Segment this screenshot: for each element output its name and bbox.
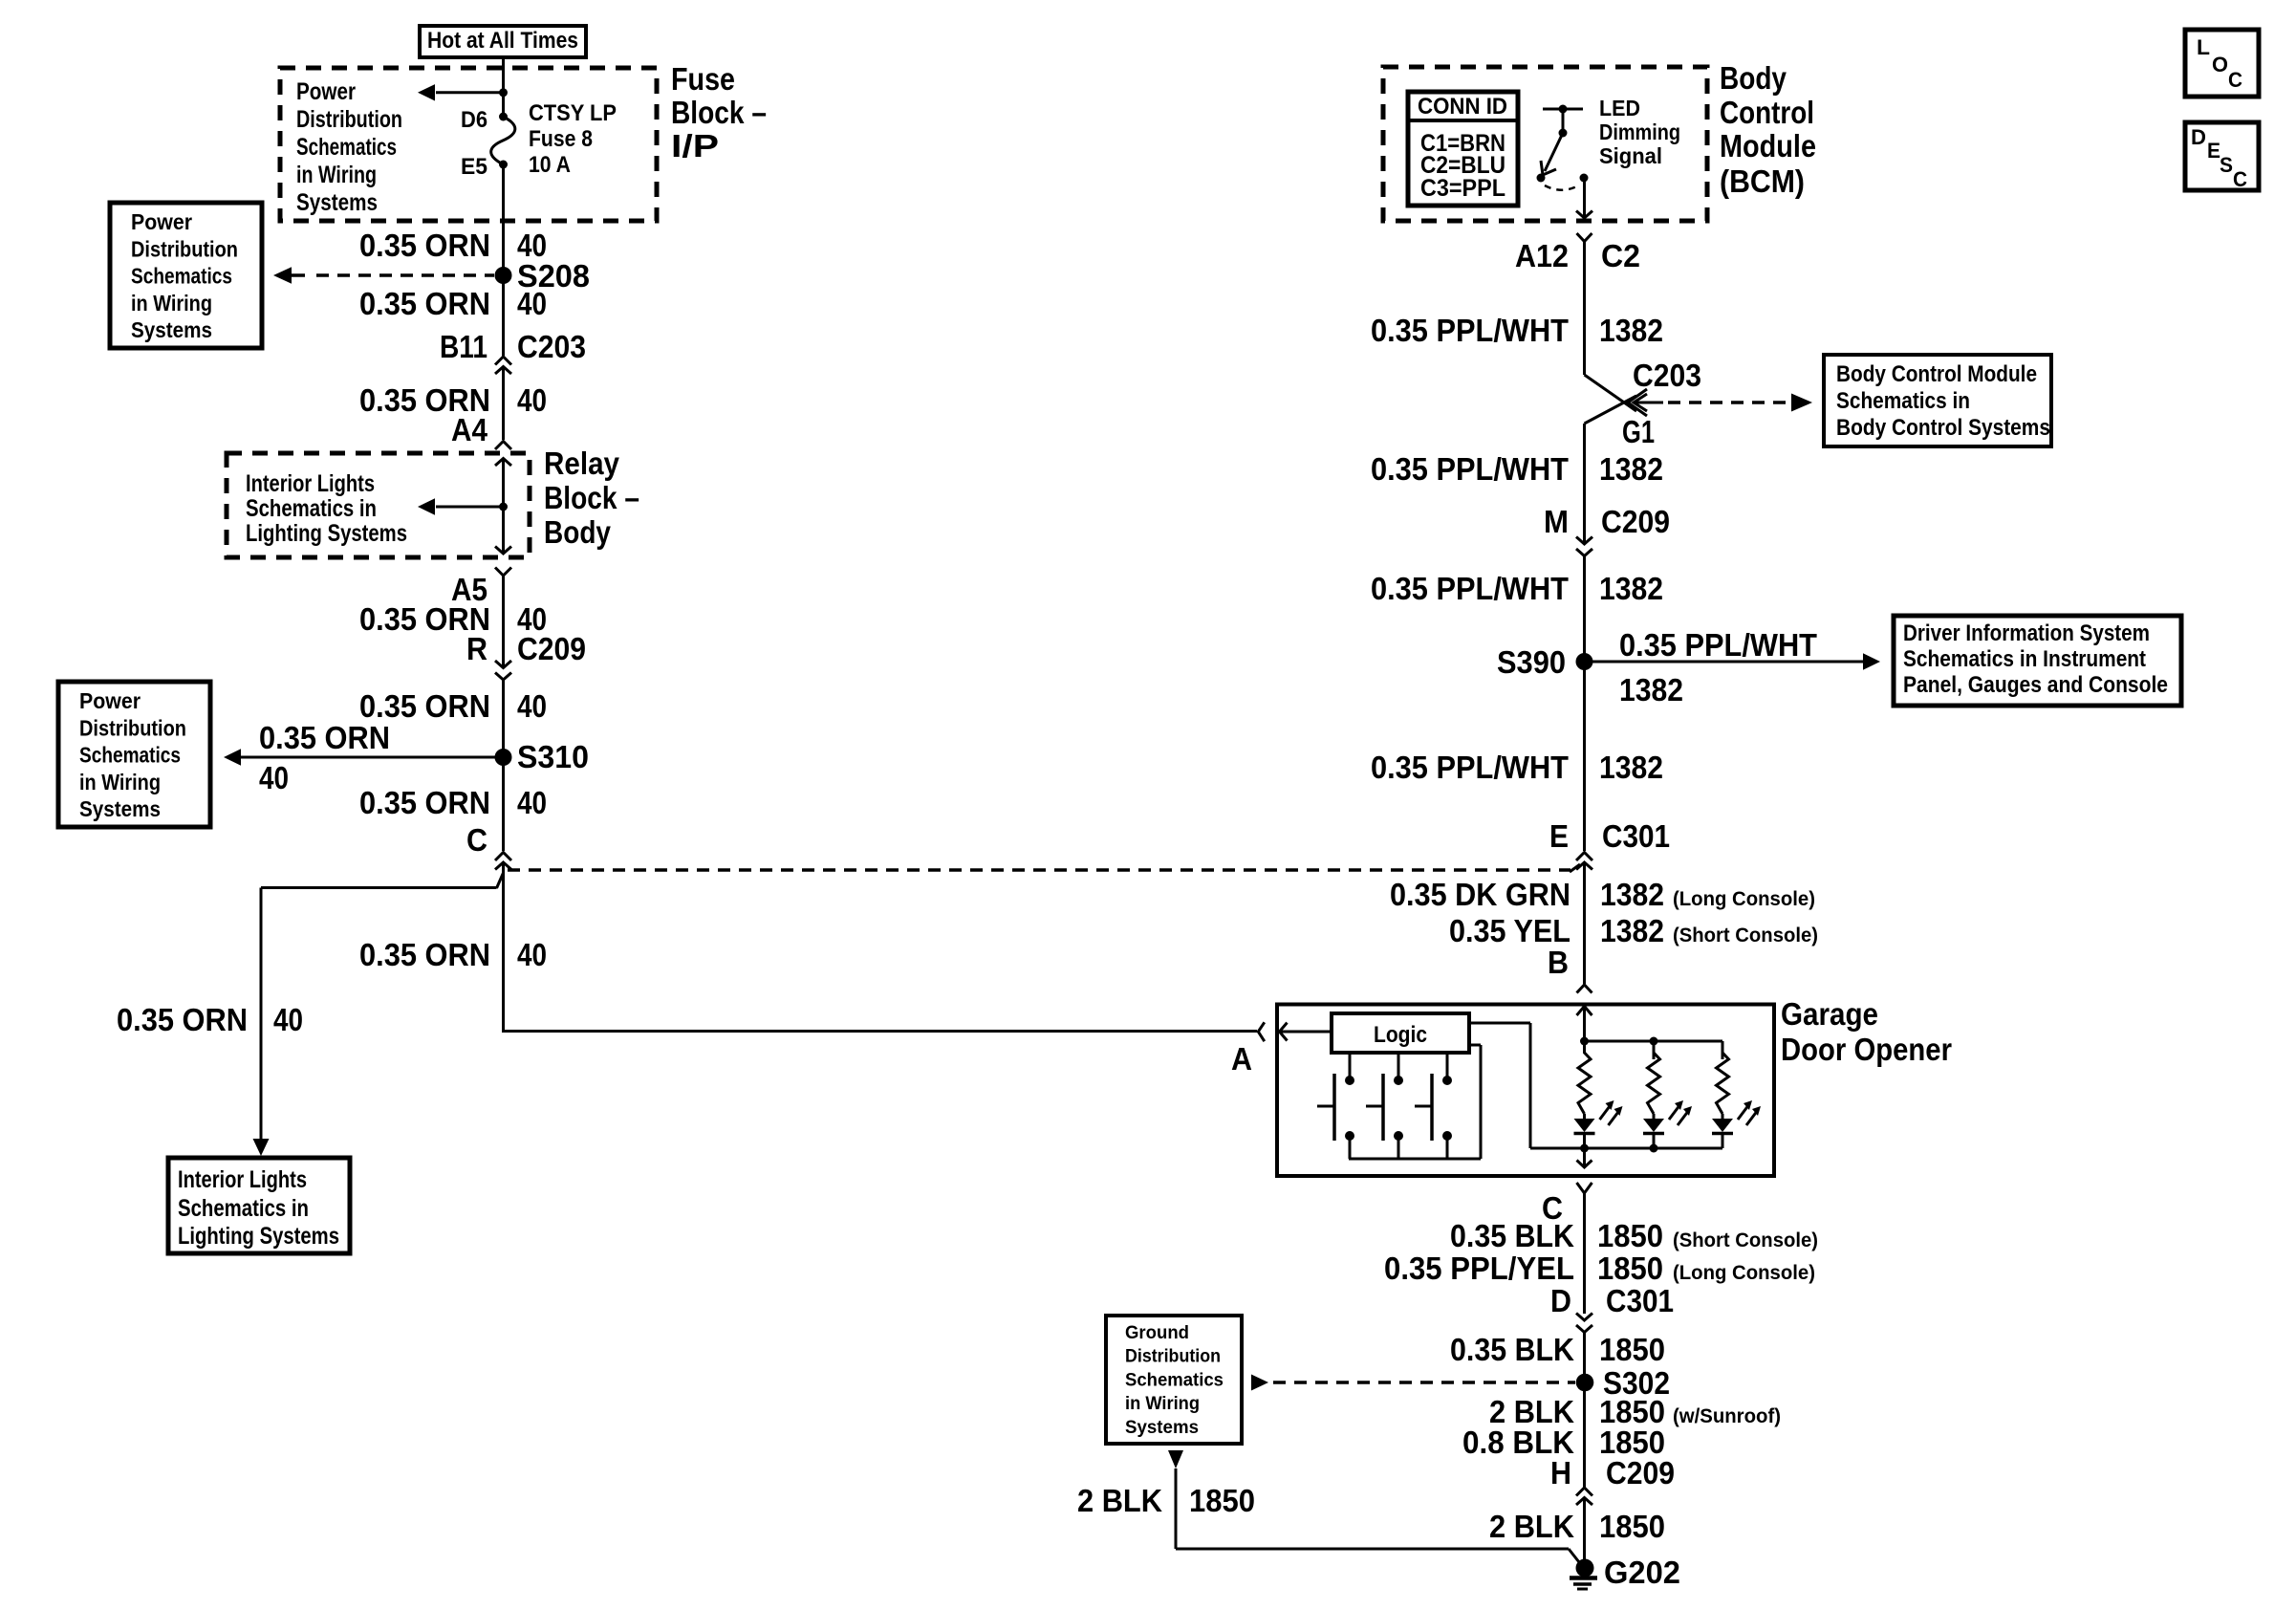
svg-text:1850: 1850 bbox=[1189, 1483, 1255, 1518]
arrow to interior lights schematics bbox=[499, 503, 508, 511]
svg-text:O: O bbox=[2212, 53, 2228, 76]
svg-text:40: 40 bbox=[259, 760, 289, 795]
arrowhead to Power Distribution Schematics bbox=[418, 84, 435, 100]
svg-text:Distribution: Distribution bbox=[131, 236, 238, 261]
connector pin B into garage door opener bbox=[1577, 985, 1592, 993]
svg-text:Hot at All Times: Hot at All Times bbox=[427, 28, 578, 54]
svg-text:1850: 1850 bbox=[1599, 1509, 1665, 1544]
svg-text:(BCM): (BCM) bbox=[1720, 163, 1805, 199]
svg-text:Interior Lights: Interior Lights bbox=[178, 1166, 307, 1193]
solid box: Power Distribution Schematics in Wiring Systems (lower left) bbox=[58, 682, 210, 827]
wire C301 to garage door opener bbox=[1583, 862, 1586, 984]
svg-text:Block –: Block – bbox=[671, 95, 767, 130]
svg-text:Block –: Block – bbox=[544, 480, 639, 515]
svg-text:Fuse: Fuse bbox=[671, 61, 735, 97]
wire H to G202 bbox=[1583, 1498, 1586, 1568]
connector C2 pin A12 below BCM bbox=[1577, 233, 1592, 242]
garage door opener box bbox=[1277, 1005, 1774, 1177]
svg-text:L: L bbox=[2197, 35, 2210, 59]
svg-text:D: D bbox=[2191, 125, 2206, 149]
horizontal wire to garage door opener pin A bbox=[502, 1030, 1257, 1033]
switch lever with arrowhead bbox=[1545, 133, 1563, 171]
BCM dashed box (Body Control Module) bbox=[1383, 67, 1707, 221]
svg-text:40: 40 bbox=[517, 785, 547, 820]
svg-text:LED: LED bbox=[1599, 96, 1640, 120]
svg-text:1382: 1382 bbox=[1599, 313, 1663, 348]
LED indicator arrows D1 bbox=[1600, 1104, 1612, 1120]
svg-text:Panel, Gauges and Console: Panel, Gauges and Console bbox=[1903, 672, 2168, 698]
svg-text:CONN ID: CONN ID bbox=[1418, 94, 1507, 120]
svg-text:Module: Module bbox=[1720, 128, 1816, 163]
LED D1 bbox=[1574, 1119, 1595, 1132]
svg-text:0.35 PPL/WHT: 0.35 PPL/WHT bbox=[1371, 451, 1569, 487]
svg-text:1850: 1850 bbox=[1597, 1251, 1663, 1286]
branch wire to interior lights bbox=[497, 873, 504, 888]
svg-text:40: 40 bbox=[517, 937, 547, 972]
svg-text:Schematics in: Schematics in bbox=[178, 1195, 309, 1222]
BCM internal switch (LED dimming signal driver) bbox=[1543, 108, 1583, 111]
svg-text:Body Control Systems: Body Control Systems bbox=[1836, 415, 2050, 441]
svg-text:Logic: Logic bbox=[1374, 1022, 1427, 1048]
wire A12 to C203 bbox=[1583, 242, 1586, 376]
svg-text:C2: C2 bbox=[1601, 238, 1640, 273]
wire E5 to S208 bbox=[502, 164, 505, 275]
svg-text:Garage: Garage bbox=[1781, 996, 1878, 1032]
solid box: Driver Information System Schematics bbox=[1894, 616, 2181, 706]
svg-text:(Long Console): (Long Console) bbox=[1673, 888, 1815, 910]
svg-text:0.35 DK GRN: 0.35 DK GRN bbox=[1390, 877, 1570, 912]
svg-text:E5: E5 bbox=[461, 154, 487, 180]
svg-text:0.35 ORN: 0.35 ORN bbox=[117, 1002, 248, 1037]
pushbutton switch SW2 bbox=[1397, 1053, 1400, 1077]
svg-text:(Short Console): (Short Console) bbox=[1673, 1229, 1818, 1251]
LED resistor R2 bbox=[1648, 1041, 1660, 1114]
pin C arrow exit bbox=[1583, 1148, 1586, 1167]
svg-text:0.35 ORN: 0.35 ORN bbox=[259, 720, 390, 755]
wire C to C301 bbox=[1583, 1193, 1586, 1314]
dashed arrow from S208 to Power Distribution box bbox=[292, 273, 305, 277]
switch contact right bbox=[1580, 174, 1589, 183]
svg-text:1382: 1382 bbox=[1600, 913, 1664, 948]
svg-text:S: S bbox=[2220, 153, 2233, 177]
svg-text:I/P: I/P bbox=[671, 128, 719, 163]
resistor column tops bbox=[1722, 1041, 1724, 1059]
wire C203 to C209 bbox=[1583, 424, 1586, 543]
svg-text:D6: D6 bbox=[461, 107, 487, 133]
ground G202 bbox=[1576, 1559, 1594, 1577]
svg-text:C: C bbox=[2228, 68, 2242, 92]
svg-text:Body Control Module: Body Control Module bbox=[1836, 361, 2037, 387]
svg-text:Interior Lights: Interior Lights bbox=[246, 470, 375, 497]
wire C209 to S390 bbox=[1583, 556, 1586, 663]
svg-text:Distribution: Distribution bbox=[296, 106, 402, 133]
svg-text:A4: A4 bbox=[451, 412, 488, 447]
DESC legend box bbox=[2185, 122, 2259, 190]
svg-text:40: 40 bbox=[517, 688, 547, 724]
svg-text:Control: Control bbox=[1720, 95, 1814, 130]
dashed arrow from S302 to Ground Distribution box bbox=[1273, 1381, 1575, 1384]
splice S208 bbox=[495, 267, 512, 284]
svg-text:Schematics: Schematics bbox=[296, 134, 397, 161]
svg-text:0.35 ORN: 0.35 ORN bbox=[359, 228, 490, 263]
svg-text:B: B bbox=[1548, 945, 1569, 980]
svg-text:in Wiring: in Wiring bbox=[1125, 1394, 1200, 1414]
fuse CTSY LP Fuse 8 10A (fuse element curve) bbox=[491, 117, 515, 164]
svg-text:Dimming: Dimming bbox=[1599, 120, 1680, 144]
svg-text:A: A bbox=[1231, 1041, 1252, 1077]
svg-text:0.35 BLK: 0.35 BLK bbox=[1450, 1332, 1574, 1367]
svg-text:0.35 PPL/WHT: 0.35 PPL/WHT bbox=[1371, 313, 1569, 348]
svg-text:in Wiring: in Wiring bbox=[296, 162, 377, 188]
svg-text:1850: 1850 bbox=[1597, 1218, 1663, 1253]
pin A connector chevron bbox=[1258, 1022, 1265, 1041]
svg-text:Power: Power bbox=[296, 78, 356, 105]
power label box "Hot at All Times" bbox=[420, 26, 586, 57]
svg-text:E: E bbox=[1549, 818, 1569, 854]
solid box: Power Distribution Schematics in Wiring Systems (left) bbox=[110, 203, 262, 348]
svg-text:C301: C301 bbox=[1602, 818, 1670, 854]
wire C301 to S302 bbox=[1583, 1333, 1586, 1489]
svg-text:D: D bbox=[1550, 1283, 1571, 1318]
svg-text:1382: 1382 bbox=[1599, 451, 1663, 487]
svg-text:B11: B11 bbox=[440, 329, 487, 364]
wire S208 to C203 connector bbox=[502, 275, 505, 356]
svg-text:Schematics: Schematics bbox=[1125, 1370, 1224, 1390]
svg-text:E: E bbox=[2207, 139, 2220, 163]
svg-text:Systems: Systems bbox=[1125, 1418, 1199, 1438]
pushbutton switch SW3 bbox=[1446, 1053, 1449, 1077]
wire C209 to S310 bbox=[502, 680, 505, 851]
svg-text:1382: 1382 bbox=[1599, 750, 1663, 785]
svg-text:Schematics in: Schematics in bbox=[246, 495, 377, 522]
wire C to garage door opener bbox=[502, 862, 505, 1030]
dashed throw arc bbox=[1545, 185, 1580, 190]
pin B arrow inside box bbox=[1577, 1007, 1592, 1016]
svg-text:(Short Console): (Short Console) bbox=[1673, 925, 1818, 946]
svg-text:0.35 PPL/WHT: 0.35 PPL/WHT bbox=[1371, 750, 1569, 785]
solid box: Ground Distribution Schematics in Wiring Systems bbox=[1106, 1316, 1242, 1444]
svg-text:Distribution: Distribution bbox=[1125, 1347, 1221, 1367]
top rail of LED resistors bbox=[1580, 1037, 1589, 1046]
connector A5 exit of relay block bbox=[495, 547, 511, 555]
LED D2 bbox=[1643, 1119, 1664, 1132]
wire from Hot at All Times into fuse block bbox=[502, 57, 505, 117]
svg-text:C3=PPL: C3=PPL bbox=[1420, 175, 1505, 202]
svg-text:C: C bbox=[2233, 167, 2247, 191]
svg-text:Fuse 8: Fuse 8 bbox=[529, 126, 593, 152]
svg-text:R: R bbox=[466, 631, 487, 666]
arrow half of A4 connector inside relay block bbox=[495, 459, 511, 467]
fuse terminal E5 bbox=[499, 161, 508, 169]
svg-text:(w/Sunroof): (w/Sunroof) bbox=[1673, 1405, 1781, 1427]
arrow from S310 to Power Distribution box (left) bbox=[241, 756, 504, 759]
svg-text:Schematics: Schematics bbox=[131, 264, 232, 289]
solid box: Interior Lights Schematics in Lighting Systems bbox=[168, 1158, 350, 1253]
relay block dashed box (Relay Block - Body) bbox=[227, 453, 530, 557]
svg-text:C209: C209 bbox=[1606, 1455, 1675, 1490]
svg-text:G1: G1 bbox=[1622, 414, 1655, 449]
svg-text:Lighting Systems: Lighting Systems bbox=[246, 520, 407, 547]
LED indicator arrows D2 bbox=[1669, 1104, 1680, 1120]
svg-text:0.35 YEL: 0.35 YEL bbox=[1449, 913, 1570, 948]
svg-text:S310: S310 bbox=[517, 739, 589, 774]
svg-text:C301: C301 bbox=[1606, 1283, 1674, 1318]
dashed wire from C connector to E connector bbox=[508, 868, 1570, 872]
svg-text:Body: Body bbox=[544, 514, 612, 550]
wire down to relay block exit bbox=[502, 507, 505, 552]
wire S390 to C301 bbox=[1583, 662, 1586, 851]
svg-text:Relay: Relay bbox=[544, 446, 620, 481]
svg-text:S390: S390 bbox=[1497, 644, 1566, 680]
svg-text:40: 40 bbox=[273, 1002, 303, 1037]
svg-text:Door Opener: Door Opener bbox=[1781, 1032, 1952, 1067]
splice S390 bbox=[1576, 653, 1593, 670]
solid box: Body Control Module Schematics in Body Control Systems bbox=[1824, 355, 2051, 446]
svg-text:Body: Body bbox=[1720, 60, 1787, 96]
svg-text:Power: Power bbox=[131, 209, 192, 234]
svg-text:Schematics in: Schematics in bbox=[1836, 388, 1970, 414]
svg-text:in Wiring: in Wiring bbox=[79, 770, 161, 794]
svg-text:Schematics in Instrument: Schematics in Instrument bbox=[1903, 646, 2146, 672]
svg-text:0.35 BLK: 0.35 BLK bbox=[1450, 1218, 1574, 1253]
Logic box bbox=[1332, 1013, 1469, 1053]
LED D3 bbox=[1712, 1119, 1733, 1132]
svg-text:G202: G202 bbox=[1604, 1555, 1680, 1590]
svg-text:C209: C209 bbox=[1601, 504, 1670, 539]
svg-text:C203: C203 bbox=[517, 329, 586, 364]
svg-text:Driver Information System: Driver Information System bbox=[1903, 620, 2150, 646]
wiring from Logic to switch common rail bbox=[1469, 1044, 1481, 1047]
wire from switch to BCM exit bbox=[1583, 178, 1586, 218]
svg-text:0.35 ORN: 0.35 ORN bbox=[359, 286, 490, 321]
svg-text:40: 40 bbox=[517, 382, 547, 418]
connector C301 pin C (left) bbox=[495, 853, 511, 861]
svg-text:CTSY LP: CTSY LP bbox=[529, 100, 617, 126]
LED indicator arrows D3 bbox=[1738, 1104, 1749, 1120]
svg-text:H: H bbox=[1550, 1455, 1571, 1490]
svg-text:Systems: Systems bbox=[296, 189, 378, 216]
svg-text:0.35 PPL/YEL: 0.35 PPL/YEL bbox=[1384, 1251, 1574, 1286]
LOC legend box bbox=[2185, 30, 2259, 97]
svg-text:C209: C209 bbox=[517, 631, 586, 666]
CONN ID table bbox=[1408, 92, 1518, 206]
wiring from Logic right to LED cathode rail bbox=[1469, 1022, 1530, 1025]
svg-text:40: 40 bbox=[517, 286, 547, 321]
connector C203 crossover bbox=[1585, 375, 1637, 411]
fuse terminal D6 bbox=[499, 113, 508, 121]
svg-text:0.35 PPL/WHT: 0.35 PPL/WHT bbox=[1619, 627, 1817, 663]
arrow from Logic to pin A bbox=[1281, 1031, 1332, 1033]
LED resistor R1 bbox=[1578, 1041, 1591, 1114]
arrowhead below ground distribution box bbox=[1168, 1450, 1183, 1469]
svg-text:Schematics: Schematics bbox=[79, 743, 181, 768]
bottom rail of LEDs bbox=[1530, 1147, 1722, 1150]
LED resistor R3 bbox=[1717, 1041, 1729, 1114]
svg-text:A12: A12 bbox=[1515, 238, 1569, 273]
svg-text:0.35 ORN: 0.35 ORN bbox=[359, 785, 490, 820]
svg-text:0.35 ORN: 0.35 ORN bbox=[359, 688, 490, 724]
svg-text:Power: Power bbox=[79, 688, 141, 713]
arrow from S390 to Driver Information System box bbox=[1585, 661, 1865, 664]
svg-text:2 BLK: 2 BLK bbox=[1077, 1483, 1162, 1518]
splice S310 bbox=[495, 749, 512, 766]
junction dot on feed wire bbox=[499, 88, 508, 97]
svg-text:Signal: Signal bbox=[1599, 143, 1662, 168]
pin C chevron below box bbox=[1577, 1183, 1592, 1193]
splice S302 bbox=[1576, 1374, 1594, 1392]
connector A4 into relay block bbox=[495, 442, 511, 450]
svg-text:1382: 1382 bbox=[1599, 571, 1663, 606]
wire C203 to relay block bbox=[502, 367, 505, 441]
svg-text:0.35 ORN: 0.35 ORN bbox=[359, 937, 490, 972]
switch contact left bbox=[1537, 174, 1546, 183]
dashed arrow to Body Control Module Schematics box bbox=[1668, 401, 1793, 404]
svg-text:0.35 PPL/WHT: 0.35 PPL/WHT bbox=[1371, 571, 1569, 606]
svg-text:Lighting Systems: Lighting Systems bbox=[178, 1223, 339, 1250]
svg-text:1382: 1382 bbox=[1619, 672, 1683, 707]
svg-text:Ground: Ground bbox=[1125, 1323, 1189, 1343]
svg-text:10 A: 10 A bbox=[529, 152, 571, 178]
svg-text:2 BLK: 2 BLK bbox=[1489, 1509, 1574, 1544]
pushbutton switch SW1 bbox=[1349, 1053, 1352, 1077]
svg-text:C203: C203 bbox=[1633, 358, 1701, 393]
svg-text:1850: 1850 bbox=[1599, 1332, 1665, 1367]
svg-text:Distribution: Distribution bbox=[79, 715, 186, 740]
svg-text:C: C bbox=[466, 822, 487, 858]
svg-text:M: M bbox=[1544, 504, 1569, 539]
svg-text:Systems: Systems bbox=[79, 796, 161, 821]
svg-text:in Wiring: in Wiring bbox=[131, 291, 212, 315]
wire A5 to C209 bbox=[502, 576, 505, 666]
fuse block dashed box (Fuse Block - I/P) bbox=[280, 68, 657, 221]
svg-text:(Long Console): (Long Console) bbox=[1673, 1262, 1815, 1284]
svg-text:1382: 1382 bbox=[1600, 877, 1664, 912]
svg-text:Systems: Systems bbox=[131, 317, 212, 342]
arrowhead to Interior Lights Schematics bbox=[253, 1139, 270, 1156]
